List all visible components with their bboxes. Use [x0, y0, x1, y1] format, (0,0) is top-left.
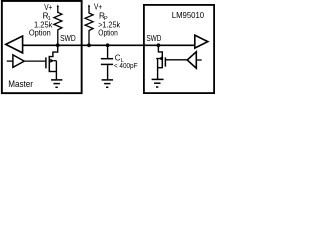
transistor Q2 (LM95010 open-drain NMOS, mirrored) — [156, 45, 165, 79]
Master block box — [2, 1, 82, 93]
resistor RP — [85, 13, 93, 31]
ground (Master NMOS source) — [51, 80, 62, 87]
wire: SWD bus — [22, 44, 194, 46]
op-amp: Master receiver buffer (points left) — [6, 36, 23, 53]
op-amp: Master driver buffer (points right) — [7, 55, 24, 68]
node: LM95010 drain / bus junction — [157, 43, 161, 47]
svg-text:Option: Option — [29, 29, 51, 38]
capacitor CL — [101, 45, 113, 79]
ground (CL) — [102, 80, 113, 87]
LM95010 block box — [144, 5, 214, 93]
wire: RP bottom to bus — [88, 30, 90, 45]
svg-text:V+: V+ — [94, 2, 103, 11]
svg-text:Option: Option — [98, 29, 118, 38]
power V+ arrow for R1 — [57, 4, 59, 13]
wire: LM95010 driver to Q2 gate — [166, 59, 187, 61]
power V+ arrow for RP — [88, 4, 90, 13]
op-amp: LM95010 receiver buffer (points right) — [195, 35, 208, 48]
op-amp: LM95010 driver buffer (points left) — [187, 52, 202, 68]
svg-text:< 400pF: < 400pF — [114, 61, 138, 70]
svg-text:Master: Master — [8, 79, 33, 89]
svg-text:SWD: SWD — [60, 34, 76, 43]
node: RP / bus junction — [87, 43, 91, 47]
resistor R1 — [54, 12, 62, 30]
wire: R1 bottom to bus — [57, 30, 59, 46]
node: R1 / bus junction — [56, 43, 60, 47]
node: CL / bus junction — [106, 43, 110, 47]
transistor Q1 (Master open-drain NMOS) — [46, 45, 58, 80]
wire: driver output to Q1 gate — [24, 60, 45, 62]
svg-text:SWD: SWD — [146, 34, 161, 43]
svg-text:LM95010: LM95010 — [172, 11, 205, 20]
ground (Q2 source) — [152, 79, 164, 87]
